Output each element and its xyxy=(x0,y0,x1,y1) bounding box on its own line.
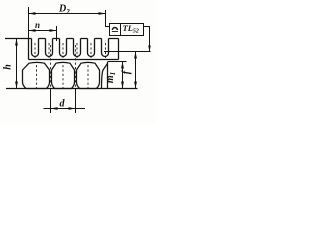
leader from frame right to f extension xyxy=(144,27,150,52)
D2 left extension line xyxy=(28,7,30,39)
dashed tangent lines (d extensions above baseline) xyxy=(50,45,52,89)
d left arrow xyxy=(51,107,58,110)
tolerance frame divider xyxy=(120,24,122,36)
h bottom arrow xyxy=(15,82,18,89)
D2 dimension line xyxy=(29,13,106,15)
n right extension line xyxy=(56,26,58,41)
d right arrow xyxy=(69,107,76,110)
leader from frame to D2 extension xyxy=(106,26,110,28)
svg-text:m1: m1 xyxy=(105,72,117,83)
hex lump 2 xyxy=(52,62,75,88)
m1 top arrow xyxy=(121,62,124,69)
D2 right arrow xyxy=(99,12,106,15)
m1 bottom arrow xyxy=(121,82,124,89)
hex lump 3 xyxy=(77,62,100,88)
m1 extension line xyxy=(108,61,127,63)
D2 right extension line xyxy=(105,10,107,27)
slot 4 xyxy=(74,39,81,57)
svg-text:n: n xyxy=(35,20,40,30)
n left arrow xyxy=(29,29,36,32)
svg-text:TL52: TL52 xyxy=(123,23,139,35)
d dimension line xyxy=(44,108,86,110)
slot 6 xyxy=(102,39,109,57)
dashed slot axes xyxy=(35,43,106,89)
f top arrow xyxy=(134,52,137,59)
dashed circle axes xyxy=(36,65,38,88)
d right extension line xyxy=(75,89,77,113)
hex lump 1 xyxy=(23,62,50,88)
slot 5 xyxy=(88,39,95,57)
svg-text:h: h xyxy=(3,64,14,70)
h dimension line xyxy=(16,39,18,89)
comb left end wall xyxy=(28,39,30,60)
D2 left arrow xyxy=(29,12,36,15)
d left extension line xyxy=(50,89,52,113)
tolerance frame box xyxy=(110,24,144,36)
comb top edge line with h extension xyxy=(5,38,119,40)
slot 3 xyxy=(60,39,67,57)
f dimension line xyxy=(135,52,137,89)
hex lump 4 clipped by end face xyxy=(102,64,108,89)
f extension line xyxy=(104,51,151,53)
comb right end wall xyxy=(118,39,120,60)
slot 1 xyxy=(32,39,39,57)
leader arrow down xyxy=(148,46,151,52)
slot 2 xyxy=(46,39,53,57)
right end face wall xyxy=(107,62,109,89)
arrowheads xyxy=(15,12,151,110)
m1 dimension line xyxy=(122,62,124,89)
comb bottom edge line xyxy=(29,59,119,61)
n right arrow xyxy=(50,29,57,32)
f bottom arrow xyxy=(134,82,137,89)
baseline xyxy=(6,88,138,90)
svg-text:D2: D2 xyxy=(58,4,70,16)
svg-text:d: d xyxy=(60,99,66,110)
n dimension line xyxy=(29,30,57,32)
profile symbol in frame cell 1 xyxy=(112,31,118,33)
h top arrow xyxy=(15,39,18,46)
